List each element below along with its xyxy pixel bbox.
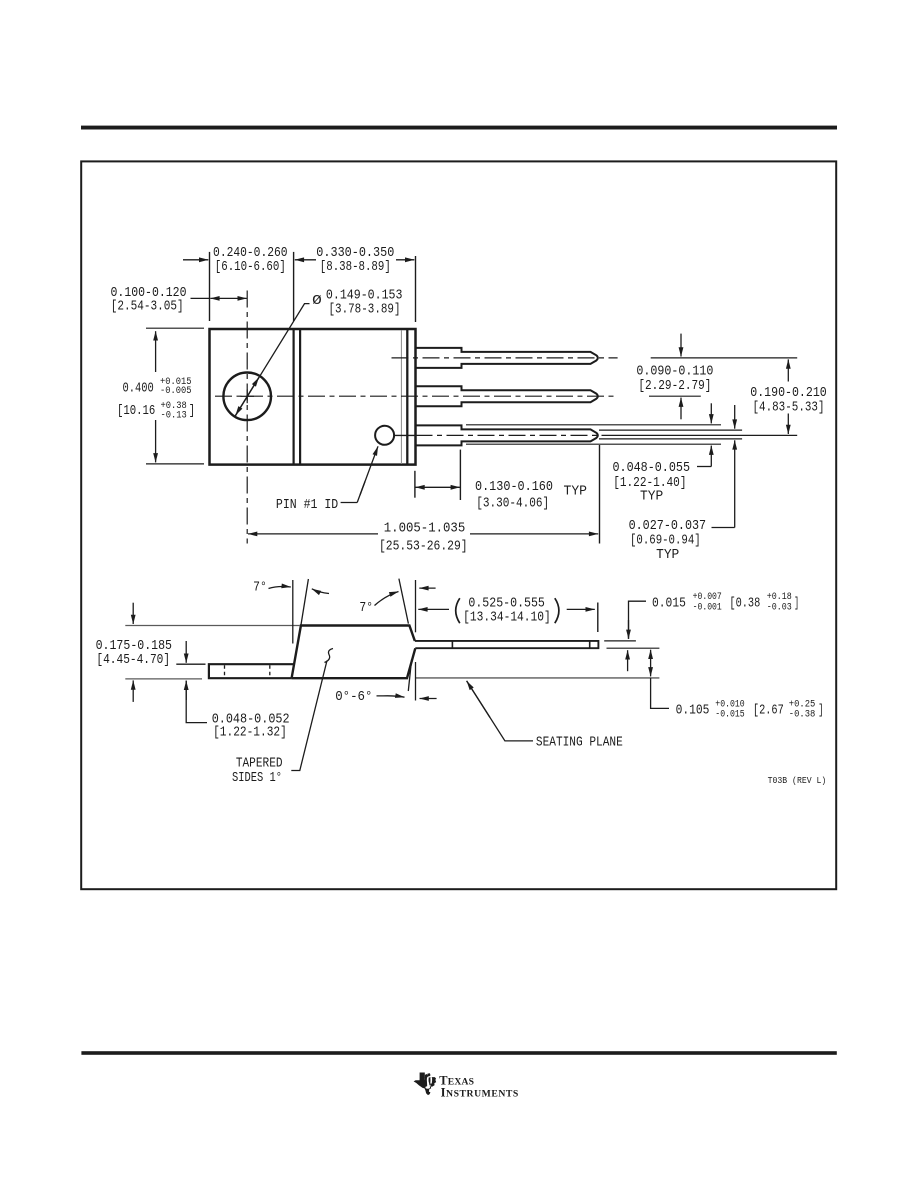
svg-text:-0.03: -0.03 (767, 603, 792, 614)
pin #1 leader (341, 502, 358, 504)
lead 2 centerline extension (649, 395, 701, 397)
bottom rule (81, 1051, 836, 1055)
svg-text:0.400: 0.400 (123, 382, 154, 397)
svg-text:0.190-0.210: 0.190-0.210 (750, 386, 827, 401)
svg-text:TYP: TYP (656, 548, 679, 563)
seating plane line (416, 677, 659, 679)
svg-text:SIDES 1°: SIDES 1° (232, 771, 282, 786)
extension line body left edge (209, 252, 211, 321)
svg-text:0.330-0.350: 0.330-0.350 (316, 246, 394, 261)
svg-text:0°-6°: 0°-6° (335, 690, 372, 705)
lead 2 (middle) (416, 386, 598, 406)
svg-text:]: ] (189, 404, 195, 419)
dimension 0.027-0.037 arrows (734, 405, 736, 429)
TI logo Texas map mark (414, 1073, 437, 1096)
front view package body outline (210, 329, 416, 465)
svg-text:0.240-0.260: 0.240-0.260 (213, 246, 288, 261)
svg-text:[2.29-2.79]: [2.29-2.79] (638, 379, 711, 394)
dimension 0.190-0.210 arrows (787, 359, 789, 381)
tab boundary line right (299, 329, 301, 465)
svg-text:[6.10-6.60]: [6.10-6.60] (215, 260, 286, 275)
lead bottom extension line (607, 647, 660, 649)
tab boundary line left (293, 329, 295, 465)
dimension 0.048-0.052 lower arrow and elbow (186, 681, 207, 723)
dimension 0.400 extension lines (146, 327, 204, 329)
svg-text:PIN #1 ID: PIN #1 ID (276, 498, 338, 513)
side view body outline (292, 626, 416, 679)
svg-text:[3.78-3.89]: [3.78-3.89] (329, 303, 401, 318)
svg-text:-0.38: -0.38 (789, 710, 816, 721)
dimension 0.525-0.555 right arrow (567, 608, 595, 610)
svg-text:0.130-0.160: 0.130-0.160 (475, 480, 553, 495)
lead section tick 1 (451, 641, 453, 648)
dimension 0.175-0.185 arrows (132, 603, 134, 624)
svg-text:[0.38: [0.38 (729, 597, 760, 612)
svg-text:0.048-0.055: 0.048-0.055 (613, 461, 691, 476)
lead 3 width extension lines (466, 424, 721, 426)
left 7 degree vertical reference (292, 580, 294, 644)
svg-text:[0.69-0.94]: [0.69-0.94] (630, 534, 701, 549)
svg-text:0.090-0.110: 0.090-0.110 (636, 365, 713, 380)
svg-text:0.105: 0.105 (676, 704, 710, 719)
lead 3 centerline (416, 434, 608, 436)
svg-text:[3.30-4.06]: [3.30-4.06] (476, 497, 549, 512)
svg-text:7°: 7° (253, 581, 267, 596)
lead 3 (bottom) (416, 425, 598, 445)
svg-text:1.005-1.035: 1.005-1.035 (384, 522, 466, 537)
dimension 0.048-0.052 upper arrow (185, 641, 187, 663)
0-6 degree leader arrow (377, 696, 405, 697)
dimension 0.105 elbow (651, 678, 669, 709)
side view lead (415, 641, 599, 648)
svg-text:-0.015: -0.015 (715, 710, 744, 721)
dimension 0.330-0.350 right arrow (396, 259, 414, 261)
tab feature dashed tick 1 (224, 665, 226, 677)
svg-text:0.149-0.153: 0.149-0.153 (326, 289, 403, 304)
lead top extension line (604, 640, 636, 642)
svg-text:TYP: TYP (564, 484, 588, 499)
right edge slant extension (399, 579, 409, 624)
svg-text:[10.16: [10.16 (117, 404, 155, 419)
right 7 degree leader arrow (375, 592, 399, 606)
dimension 0.048-0.055 elbow (697, 466, 711, 468)
svg-text:[25.53-26.29]: [25.53-26.29] (379, 539, 468, 554)
body and lead 2 centerline (215, 395, 618, 397)
svg-text:SEATING PLANE: SEATING PLANE (536, 736, 623, 751)
svg-text:0.175-0.185: 0.175-0.185 (96, 639, 172, 654)
svg-text:[4.83-5.33]: [4.83-5.33] (753, 400, 825, 415)
dimension 0.100-0.120 leader (191, 297, 210, 299)
svg-text:[4.45-4.70]: [4.45-4.70] (96, 653, 170, 668)
hole vertical centerline (246, 291, 248, 544)
svg-text:7°: 7° (359, 601, 373, 616)
svg-text:INSTRUMENTS: INSTRUMENTS (441, 1086, 519, 1100)
svg-text:]: ] (818, 704, 823, 719)
svg-text:+0.18: +0.18 (767, 592, 792, 603)
right body edge vertical reference lower (415, 662, 417, 701)
svg-text:-0.001: -0.001 (693, 603, 722, 614)
pin #1 ID circle (375, 426, 394, 445)
0-6 degree tick line (408, 660, 411, 692)
pin #1 circle link line (394, 434, 414, 436)
svg-text:-0.005: -0.005 (160, 386, 192, 397)
left edge slant extension (301, 579, 309, 625)
lead 1 centerline (392, 357, 618, 359)
lead frame thin line (400, 330, 402, 464)
dimension 0.015 lower arrow (627, 650, 629, 671)
right body edge vertical reference upper (415, 580, 417, 632)
extension line body right edge top (415, 256, 417, 322)
lead tip extension line (599, 445, 601, 544)
tapered sides leader (291, 661, 327, 771)
body inner edge line (406, 329, 408, 465)
svg-text:[1.22-1.40]: [1.22-1.40] (613, 476, 686, 491)
svg-text:0.525-0.555: 0.525-0.555 (468, 597, 545, 612)
dimension 0.525-0.555 left arrow (418, 608, 449, 610)
svg-text:+0.007: +0.007 (693, 592, 722, 603)
lead 1 centerline extension (651, 357, 798, 359)
side view tab outline (209, 664, 294, 678)
drawing border box (81, 161, 836, 889)
right 7 degree counter arrow (419, 587, 435, 589)
svg-text:[13.34-14.10]: [13.34-14.10] (463, 610, 551, 625)
svg-text:[2.67: [2.67 (753, 704, 784, 719)
dimension 0.240-0.260 right arrow (295, 259, 316, 261)
svg-text:[2.54-3.05]: [2.54-3.05] (111, 299, 184, 314)
svg-text:+0.010: +0.010 (715, 699, 744, 710)
dimension 1.005-1.035 lines and arrows (248, 533, 378, 535)
svg-text:T03B (REV L): T03B (REV L) (768, 775, 827, 786)
dimension 0.015 elbow (629, 601, 647, 639)
svg-text:0.027-0.037: 0.027-0.037 (629, 519, 707, 534)
tapered sides squiggle (325, 649, 334, 663)
svg-text:TYP: TYP (640, 490, 663, 505)
svg-text:ø: ø (312, 290, 322, 309)
hole center cross (241, 395, 255, 397)
lead 3 centerline extension (607, 434, 797, 436)
dimension 0.090-0.110 arrows (680, 334, 682, 357)
svg-text:]: ] (794, 597, 799, 612)
mounting hole (223, 373, 271, 421)
dimension 0.240-0.260 left arrow (183, 259, 208, 261)
svg-text:0.015: 0.015 (652, 597, 686, 612)
bottom-left extension line (125, 678, 202, 680)
top rule (81, 126, 837, 130)
extension line tab boundary (293, 252, 295, 321)
0-6 degree counter arrow (420, 698, 437, 700)
hole diameter leader line (235, 304, 310, 417)
dimension 0.525-0.555 text (456, 598, 460, 623)
svg-text:[8.38-8.89]: [8.38-8.89] (320, 260, 391, 275)
dimension 0.130-0.160 extension lines (414, 471, 416, 498)
tab top extension line (176, 663, 205, 665)
tab feature dashed tick 2 (269, 665, 271, 677)
svg-text:TAPERED: TAPERED (236, 757, 283, 772)
lead 1 (top) (416, 348, 598, 368)
seating plane leader arrow (467, 681, 533, 741)
svg-text:[1.22-1.32]: [1.22-1.32] (213, 725, 287, 740)
dimension 0.100-0.120 arrows (210, 297, 247, 299)
body top extension line (125, 625, 299, 627)
dimension 0.048-0.055 arrows (710, 403, 712, 423)
dimension 0.130-0.160 arrows (415, 486, 460, 488)
dimension 0.027-0.037 elbow (712, 527, 735, 529)
hole diameter arrows (247, 378, 259, 397)
dimension 0.105 arrows (650, 650, 652, 677)
svg-text:-0.13: -0.13 (161, 411, 187, 422)
left 7 degree counter arrow (312, 589, 329, 594)
lead section tick 2 (589, 641, 591, 648)
dimension 0.525-0.555 right extension line (597, 603, 599, 633)
dimension 0.400 arrows (155, 331, 157, 372)
svg-text:+0.25: +0.25 (789, 699, 816, 710)
left 7 degree leader arrow (269, 587, 291, 589)
